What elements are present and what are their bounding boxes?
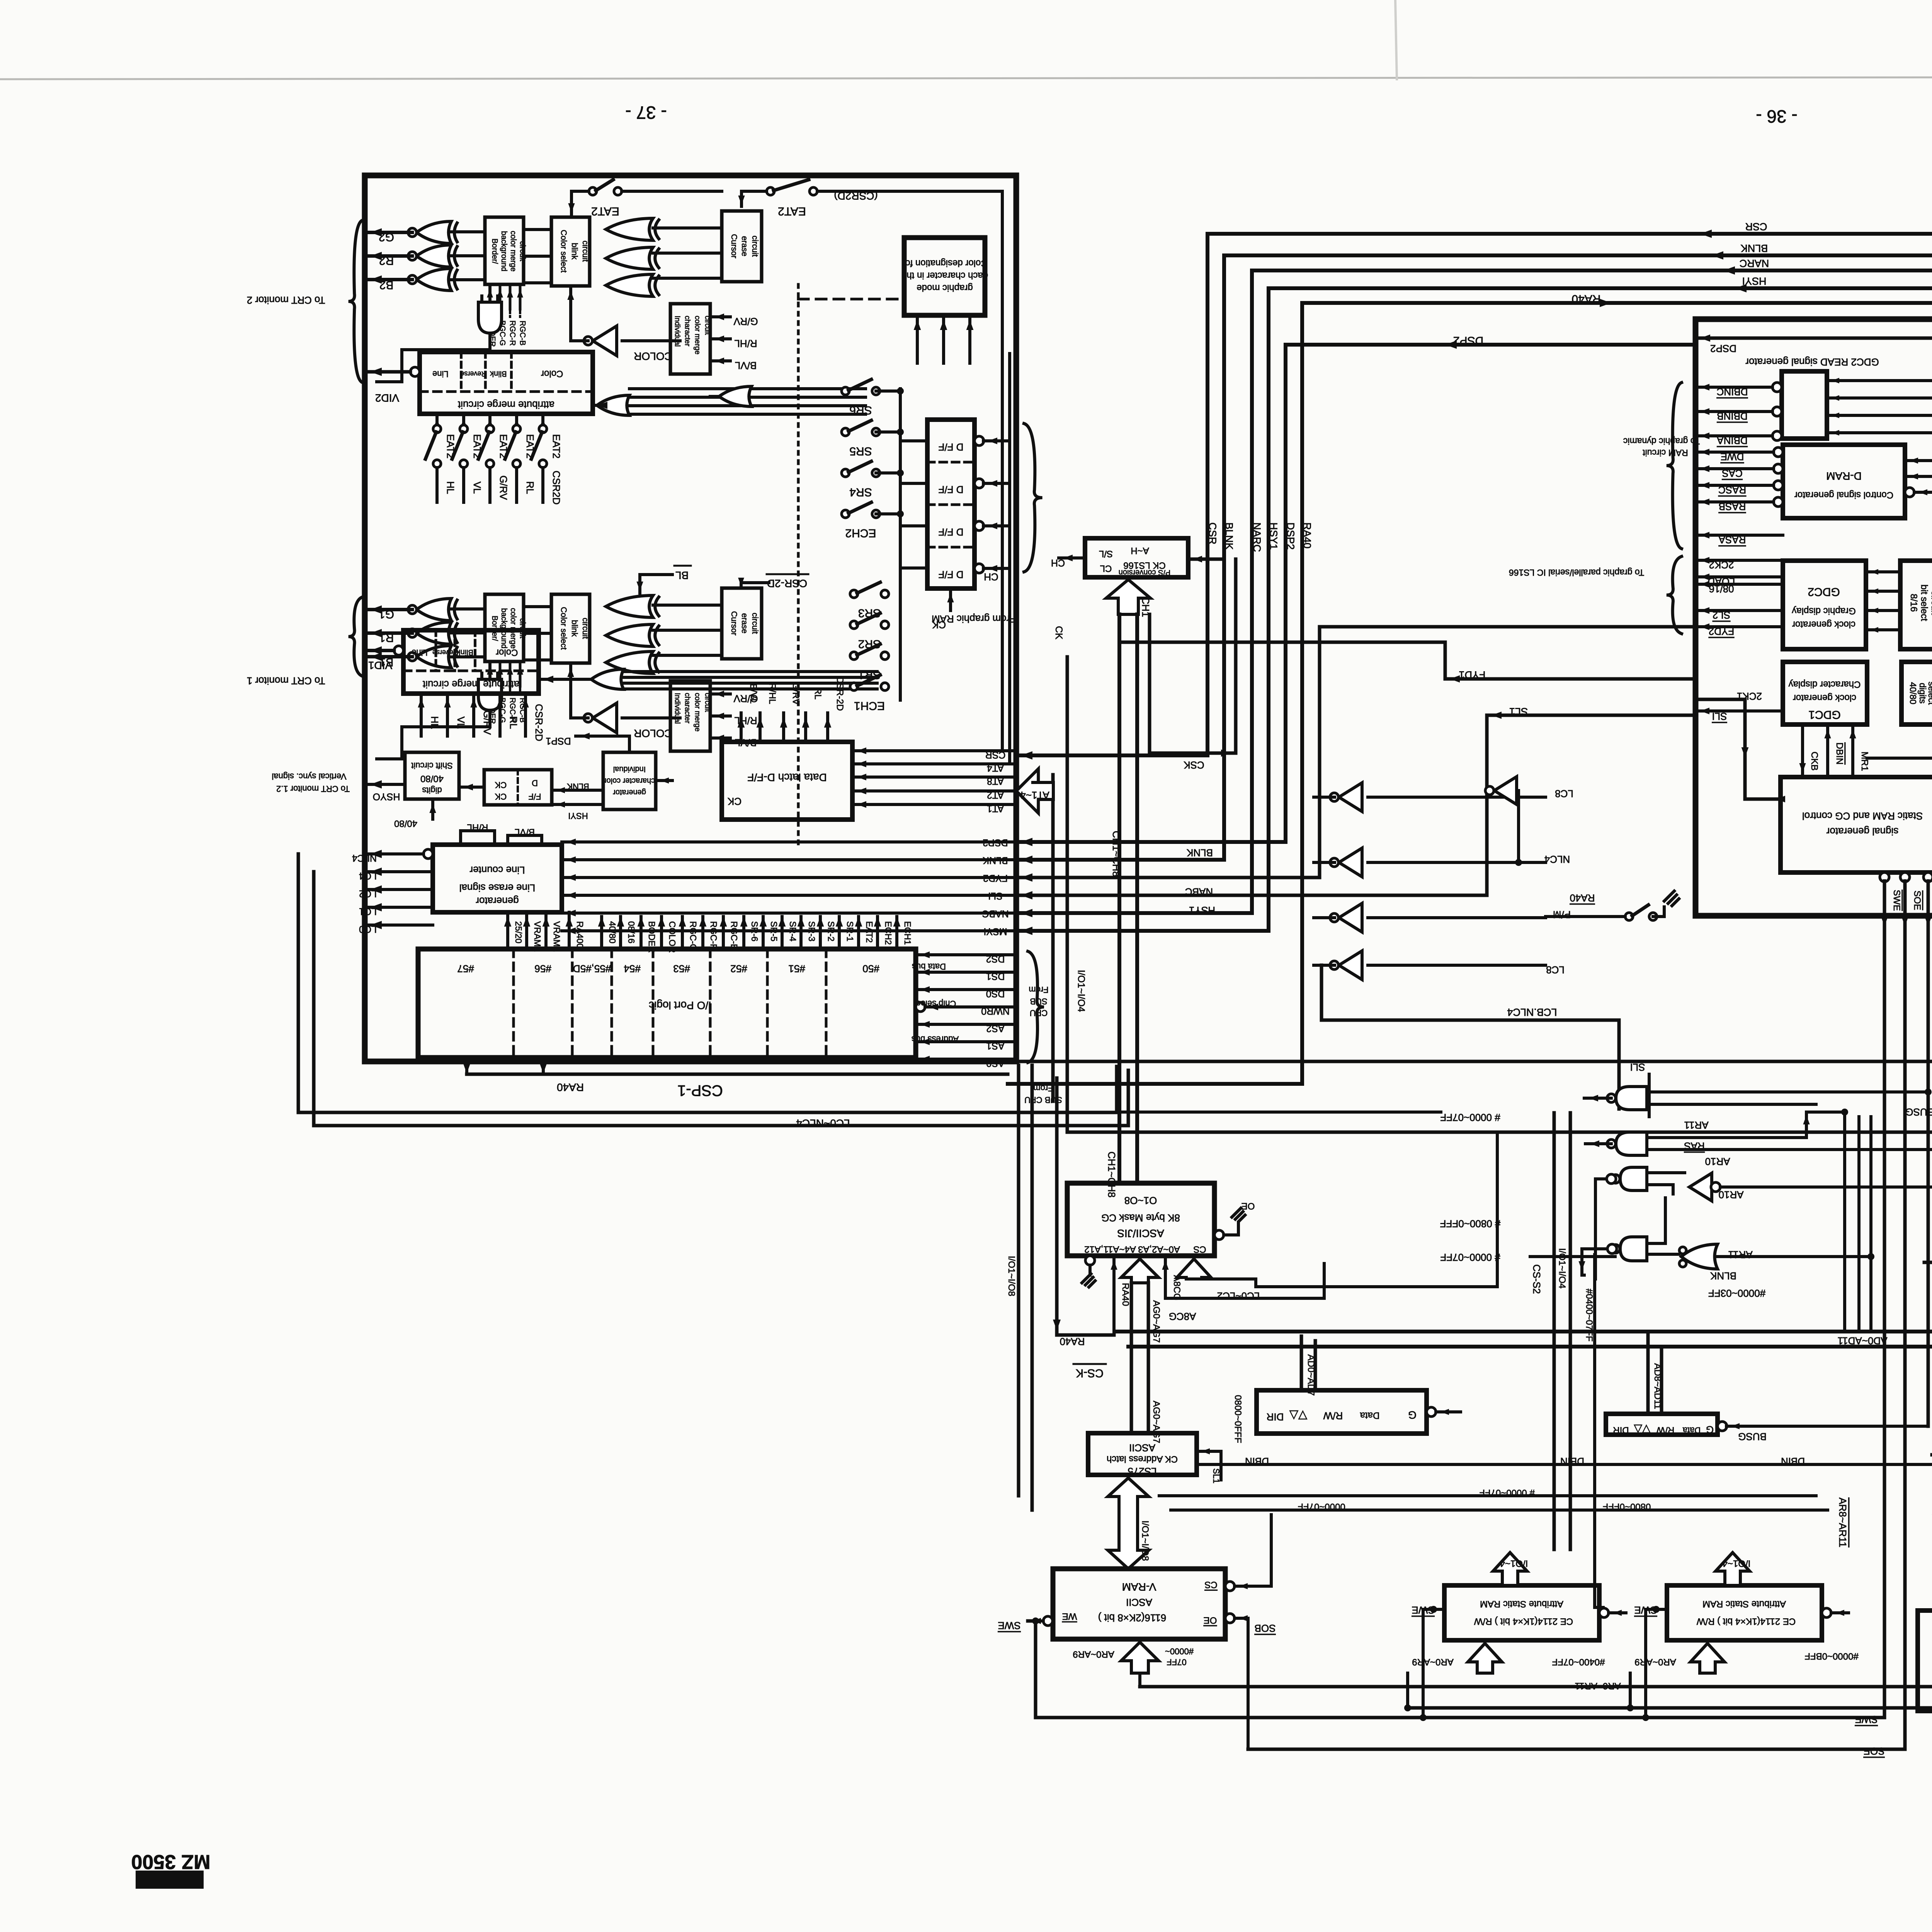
wire	[983, 567, 1009, 570]
wire	[365, 254, 412, 258]
wire	[900, 439, 927, 442]
svg-text:AR10: AR10	[1705, 1156, 1730, 1167]
svg-text:D F/F: D F/F	[939, 569, 964, 580]
dashed wire	[435, 630, 437, 671]
svg-text:P/M: P/M	[1553, 909, 1571, 920]
block GDC2 READ signal generator	[1782, 371, 1827, 439]
wire	[452, 432, 463, 459]
svg-text:P/S conversion: P/S conversion	[1119, 568, 1171, 577]
svg-text:SOB: SOB	[1255, 1622, 1276, 1634]
svg-text:SOE: SOE	[1912, 891, 1922, 910]
svg-text:Cursor: Cursor	[730, 234, 738, 258]
wire	[525, 917, 528, 949]
svg-text:# 0000~07FF: # 0000~07FF	[1440, 1112, 1500, 1123]
wire	[942, 315, 945, 363]
wire	[488, 665, 492, 679]
wire	[1553, 1113, 1556, 1549]
dashed wire	[509, 309, 511, 317]
svg-text:BLNK: BLNK	[1710, 1270, 1736, 1282]
svg-text:HL: HL	[429, 716, 440, 729]
svg-text:character: character	[683, 316, 691, 347]
wire	[312, 872, 316, 1126]
svg-text:RA40: RA40	[557, 1081, 584, 1093]
svg-text:#0000~: #0000~	[1165, 1646, 1194, 1656]
switch	[1625, 913, 1633, 920]
switch ECH1	[850, 683, 858, 690]
block Border/background color merge circuit	[485, 594, 524, 662]
svg-text:I/O1~I/O4: I/O1~I/O4	[1557, 1248, 1567, 1289]
wire	[1130, 1283, 1133, 1433]
wire	[461, 831, 495, 845]
svg-text:ECH1: ECH1	[903, 921, 913, 945]
wire	[639, 917, 643, 949]
wire	[1016, 715, 1696, 895]
svg-text:Data: Data	[1682, 1425, 1701, 1435]
dashed wire	[927, 503, 975, 506]
wire	[1905, 475, 1932, 478]
wire	[1595, 1177, 1616, 1180]
bus arrow	[1016, 769, 1053, 813]
svg-text:R/HL: R/HL	[734, 338, 757, 349]
svg-text:character color: character color	[604, 777, 655, 785]
wire	[1585, 1142, 1611, 1145]
block Cursor erase circuit	[722, 588, 762, 659]
svg-text:FYD1: FYD1	[1459, 669, 1485, 681]
block LS166 P/S conversion	[1085, 538, 1188, 577]
brace	[1667, 383, 1682, 549]
svg-text:LOAD: LOAD	[1708, 576, 1735, 587]
block I/O Port logic #50-#57	[418, 949, 916, 1058]
svg-text:AT8: AT8	[987, 776, 1004, 786]
bus arrow	[1108, 1478, 1149, 1569]
XOR gate	[417, 269, 451, 291]
wire	[1117, 614, 1121, 1183]
svg-text:6116(2K×8 bit ): 6116(2K×8 bit )	[1098, 1612, 1167, 1624]
wire	[1646, 1332, 1650, 1414]
svg-text:VL: VL	[471, 481, 483, 494]
svg-text:BLNK: BLNK	[567, 782, 589, 791]
svg-text:CL: CL	[1100, 563, 1112, 574]
block Attribute Static RAM 2114 1Kx4	[1667, 1585, 1822, 1640]
dashed wire	[454, 630, 456, 671]
wire	[916, 971, 1016, 974]
wire	[1051, 775, 1055, 1101]
svg-text:RA40: RA40	[1571, 293, 1600, 305]
svg-text:graphic mode: graphic mode	[917, 283, 973, 293]
wire	[365, 906, 433, 909]
wire	[1582, 1249, 1584, 1275]
XOR gate	[606, 247, 653, 269]
wire	[624, 682, 877, 685]
svg-text:DSP2: DSP2	[983, 837, 1008, 848]
wire	[365, 370, 410, 374]
wire	[1696, 625, 1783, 628]
svg-text:GDC2: GDC2	[1808, 585, 1840, 598]
wire	[1584, 1097, 1611, 1100]
wire	[762, 917, 765, 949]
svg-text:AR8~AR11: AR8~AR11	[1837, 1498, 1849, 1548]
svg-text:CK: CK	[727, 796, 742, 807]
wire	[562, 894, 1016, 897]
wire	[1197, 1450, 1221, 1453]
bus arrow	[1177, 1259, 1211, 1279]
wire	[1726, 1425, 1928, 1428]
wire	[740, 713, 743, 742]
wire	[499, 284, 502, 309]
svg-text:CS: CS	[1193, 1244, 1206, 1255]
wire	[462, 414, 465, 425]
svg-text:RA400: RA400	[575, 921, 585, 948]
wire	[562, 929, 1016, 932]
svg-text:AR10: AR10	[1718, 1189, 1743, 1201]
wire	[660, 917, 663, 949]
svg-text:OE: OE	[1204, 1615, 1217, 1626]
svg-text:HSY1: HSY1	[1268, 522, 1279, 550]
wire	[1235, 1617, 1248, 1620]
svg-text:NABC: NABC	[982, 908, 1009, 919]
svg-text:SR-6: SR-6	[750, 921, 760, 941]
svg-text:▽△: ▽△	[1289, 1409, 1307, 1422]
dashed wire	[403, 669, 539, 672]
block Shift circuit 40/80 digits	[405, 752, 459, 799]
svg-text:AR0~AR9: AR0~AR9	[1634, 1657, 1676, 1667]
wire	[496, 673, 499, 679]
svg-text:AT2: AT2	[987, 789, 1004, 800]
svg-text:BLNK: BLNK	[983, 855, 1008, 866]
dashed wire	[499, 686, 501, 694]
svg-text:GDC2 READ signal generator: GDC2 READ signal generator	[1745, 356, 1879, 368]
wire	[1647, 1242, 1665, 1245]
XOR gate	[417, 599, 451, 621]
wire	[1436, 1410, 1461, 1413]
wire	[1867, 757, 1932, 760]
svg-text:2CK1: 2CK1	[1737, 690, 1762, 702]
svg-text:COLOR: COLOR	[634, 727, 672, 739]
svg-text:R/HL: R/HL	[467, 822, 488, 833]
wire	[431, 799, 434, 819]
wire	[496, 296, 499, 302]
svg-text:BLNK: BLNK	[1741, 243, 1768, 254]
wire	[1660, 1347, 1663, 1414]
switch SR4	[842, 469, 849, 477]
svg-text:B/VL: B/VL	[735, 360, 757, 371]
svg-text:Reverse: Reverse	[432, 649, 458, 656]
wire	[562, 912, 1016, 915]
dashed wire	[797, 284, 800, 850]
svg-text:VRAM1: VRAM1	[532, 921, 543, 952]
wire	[1115, 1066, 1119, 1112]
wire	[1119, 642, 1696, 679]
svg-text:D F/F: D F/F	[939, 526, 964, 538]
switch SR5	[842, 428, 849, 436]
svg-text:CS: CS	[1204, 1580, 1217, 1590]
wire	[1647, 1148, 1932, 1151]
wire	[852, 803, 1016, 806]
svg-text:RL: RL	[813, 688, 823, 700]
wire	[1663, 907, 1666, 917]
XOR gate	[417, 221, 451, 243]
wire	[1745, 758, 1932, 759]
svg-text:FYD2: FYD2	[983, 872, 1008, 883]
svg-text:From: From	[1033, 1083, 1053, 1093]
dashed wire	[927, 461, 975, 464]
wire	[876, 430, 900, 434]
wire	[781, 917, 784, 949]
svg-text:CE 2114(1K×4 bit ) R/W: CE 2114(1K×4 bit ) R/W	[1474, 1616, 1573, 1627]
svg-text:Color select: Color select	[559, 230, 568, 273]
dashed wire	[798, 298, 904, 301]
wire	[1016, 270, 1932, 913]
wire	[1696, 709, 1783, 713]
svg-text:0000~07FF: 0000~07FF	[1298, 1502, 1345, 1512]
svg-text:G/RV: G/RV	[733, 316, 758, 327]
inverter	[1339, 951, 1362, 980]
wire	[968, 315, 971, 363]
wire	[1067, 657, 1932, 1132]
wire	[799, 917, 803, 949]
wire	[459, 786, 484, 789]
svg-text:AR11: AR11	[1728, 1249, 1752, 1260]
wire	[472, 694, 475, 736]
wire	[519, 284, 522, 309]
svg-text:CK: CK	[495, 780, 507, 790]
svg-text:CSR: CSR	[1207, 522, 1218, 544]
bus arrow	[1493, 1553, 1527, 1585]
svg-text:CSR-2D: CSR-2D	[767, 577, 807, 589]
svg-text:RGC-R: RGC-R	[709, 921, 719, 950]
svg-text:# 0800~0FFF: # 0800~0FFF	[1440, 1218, 1501, 1230]
wire	[451, 278, 485, 281]
OR gate	[1681, 1244, 1718, 1269]
block	[403, 630, 539, 694]
svg-text:To CRT monitor 1.2: To CRT monitor 1.2	[276, 784, 350, 794]
wire	[1016, 627, 1696, 878]
wire	[1905, 459, 1932, 462]
svg-text:select: select	[1927, 682, 1932, 705]
wire	[552, 789, 603, 792]
NAND gate	[1616, 1087, 1647, 1110]
svg-text:R1: R1	[379, 631, 394, 644]
svg-text:40/80: 40/80	[394, 818, 417, 829]
svg-text:0800~0FFF: 0800~0FFF	[1603, 1502, 1651, 1512]
svg-text:# 0000~07FF: # 0000~07FF	[1479, 1488, 1534, 1498]
brace	[1667, 556, 1682, 634]
svg-text:G2: G2	[379, 231, 394, 243]
svg-text:ASCII: ASCII	[1129, 1442, 1155, 1454]
wire	[1927, 881, 1930, 922]
wire	[365, 631, 412, 635]
block ASCII CK Address latch LS275	[1088, 1433, 1197, 1475]
svg-text:#0400~07FF: #0400~07FF	[1552, 1657, 1605, 1667]
block V-RAM Address latch LS373	[1918, 1611, 1932, 1711]
svg-text:LS275: LS275	[1128, 1466, 1156, 1477]
wire	[1235, 1585, 1271, 1588]
wire	[1546, 915, 1625, 918]
MZ 3500 mark bar	[136, 1871, 204, 1889]
wire	[525, 912, 528, 917]
block bus transceiver AD8-AD11	[1606, 1414, 1718, 1435]
block ASCII/JIS 8K byte Mask CG ROM	[1067, 1183, 1214, 1256]
svg-text:D F/F: D F/F	[939, 484, 964, 495]
svg-text:each character in the: each character in the	[901, 270, 988, 281]
block CSP-1 outer	[365, 175, 1016, 1061]
wire	[1653, 915, 1664, 918]
svg-text:CSP-1: CSP-1	[677, 1082, 723, 1099]
svg-text:Color: Color	[496, 647, 518, 658]
wire	[467, 1073, 1008, 1076]
wire	[1648, 1074, 1651, 1117]
svg-text:#0000~03FF: #0000~03FF	[1708, 1287, 1765, 1299]
svg-text:Attribute Static RAM: Attribute Static RAM	[1702, 1599, 1786, 1609]
switch SR6	[842, 387, 849, 395]
svg-text:Control signal generator: Control signal generator	[1794, 490, 1893, 500]
switch SR3	[850, 590, 858, 598]
wire	[1644, 1609, 1647, 1718]
svg-text:I/O1~4: I/O1~4	[1723, 1558, 1751, 1569]
svg-text:BL: BL	[675, 569, 689, 581]
wire	[509, 284, 512, 309]
wire	[1016, 255, 1932, 1061]
wire	[1140, 1685, 1932, 1689]
wire	[435, 414, 439, 425]
wire	[900, 482, 927, 485]
wire	[1924, 1261, 1932, 1264]
wire	[949, 588, 952, 611]
wire	[819, 917, 822, 949]
svg-text:SUB: SUB	[1030, 997, 1047, 1006]
svg-text:RL: RL	[524, 481, 536, 494]
wire	[629, 387, 866, 390]
wire	[782, 713, 785, 742]
brace	[1028, 951, 1044, 1063]
wire	[1816, 1104, 1816, 1496]
svg-text:To CRT monitor 2: To CRT monitor 2	[247, 294, 325, 306]
wire	[1664, 1198, 1667, 1243]
svg-text:SL1: SL1	[1211, 1468, 1221, 1483]
svg-text:DSP2: DSP2	[1453, 334, 1483, 347]
block bus transceiver AD0-AD7	[1257, 1390, 1427, 1434]
svg-text:Individual: Individual	[673, 693, 681, 724]
wire	[531, 432, 542, 459]
svg-text:CH1~CH8: CH1~CH8	[1106, 1151, 1117, 1197]
wire	[1300, 1336, 1303, 1390]
svg-text:SR-2: SR-2	[826, 921, 836, 941]
wire	[1406, 1673, 1409, 1708]
dashed wire	[509, 686, 511, 694]
wire	[1016, 288, 1932, 931]
wire	[1672, 899, 1679, 906]
svg-text:CSR2D: CSR2D	[551, 471, 562, 505]
svg-text:A8CG: A8CG	[1169, 1311, 1196, 1322]
wire	[1647, 1090, 1928, 1094]
svg-text:DIR: DIR	[1267, 1411, 1284, 1423]
block D-F/F CK	[484, 770, 552, 805]
block Individual character color generator	[603, 752, 656, 810]
svg-text:0800~0FFF: 0800~0FFF	[1233, 1395, 1243, 1443]
svg-text:CSK: CSK	[1184, 759, 1204, 771]
wire	[852, 776, 1016, 779]
wire	[710, 692, 730, 696]
svg-text:Individual: Individual	[673, 316, 681, 347]
svg-text:SLI: SLI	[988, 890, 1003, 901]
wire	[508, 835, 542, 845]
svg-text:Graphic display: Graphic display	[1792, 606, 1855, 616]
svg-text:DWE: DWE	[1721, 451, 1744, 463]
wire	[983, 482, 1009, 485]
NAND gate	[1616, 1132, 1647, 1155]
XOR gate	[417, 622, 451, 644]
wire	[1314, 796, 1335, 799]
wire	[524, 694, 527, 736]
wire	[1082, 1274, 1091, 1283]
svg-text:B2: B2	[379, 279, 394, 291]
wire	[857, 917, 860, 949]
svg-text:circuit: circuit	[581, 241, 590, 262]
svg-text:background: background	[500, 231, 508, 272]
wire	[1016, 234, 1932, 755]
OR gate	[597, 395, 629, 415]
svg-text:circuit: circuit	[703, 693, 711, 712]
block Line counter / Line erase signal generator	[433, 845, 562, 912]
wire	[1031, 1065, 1034, 1510]
svg-text:HSYI: HSYI	[1742, 276, 1766, 287]
svg-text:25/20: 25/20	[514, 921, 524, 944]
wire	[515, 468, 518, 502]
svg-text:DSP1: DSP1	[546, 735, 571, 746]
wire	[629, 396, 866, 399]
dashed wire	[571, 949, 574, 1058]
svg-text:AS1: AS1	[986, 1040, 1004, 1051]
svg-text:SL2: SL2	[1713, 609, 1730, 621]
block GDC2 Graphic display clock generator	[1783, 561, 1866, 649]
svg-text:COLOR: COLOR	[667, 921, 677, 953]
svg-text:NARC: NARC	[1740, 258, 1769, 269]
svg-text:DBIN: DBIN	[1245, 1456, 1269, 1467]
svg-text:I/O Port logic: I/O Port logic	[649, 999, 711, 1011]
wire	[1368, 964, 1546, 967]
svg-text:A~H: A~H	[1131, 546, 1149, 556]
wire	[1008, 354, 1011, 764]
svg-text:AG0~AG7: AG0~AG7	[1151, 1300, 1162, 1343]
NAND gate	[1620, 1167, 1647, 1190]
wire	[1928, 1092, 1929, 1426]
wire	[1138, 1673, 1141, 1687]
block GDC1 Character display clock generator	[1783, 662, 1867, 724]
svg-text:signal generator: signal generator	[1826, 826, 1898, 837]
wire	[1696, 410, 1772, 413]
wire	[570, 191, 573, 215]
svg-text:ECH1: ECH1	[854, 699, 885, 712]
wire	[900, 524, 927, 527]
wire	[629, 404, 866, 407]
wire	[1594, 1179, 1597, 1279]
svg-text:#53: #53	[673, 963, 690, 975]
switch SR2	[850, 621, 858, 629]
wire	[710, 714, 730, 718]
wire	[629, 413, 866, 416]
switch ECH2	[842, 510, 849, 518]
svg-text:Blink: Blink	[456, 648, 473, 656]
wire	[653, 629, 722, 632]
svg-text:LC0~NLC4: LC0~NLC4	[796, 1117, 850, 1129]
wire	[1851, 724, 1854, 777]
svg-text:LC0: LC0	[359, 923, 377, 934]
svg-text:DBINA: DBINA	[1717, 435, 1748, 446]
wire	[544, 917, 548, 949]
wire	[562, 858, 1016, 861]
wire	[1883, 922, 1886, 1718]
bus arrow	[1121, 1259, 1159, 1283]
